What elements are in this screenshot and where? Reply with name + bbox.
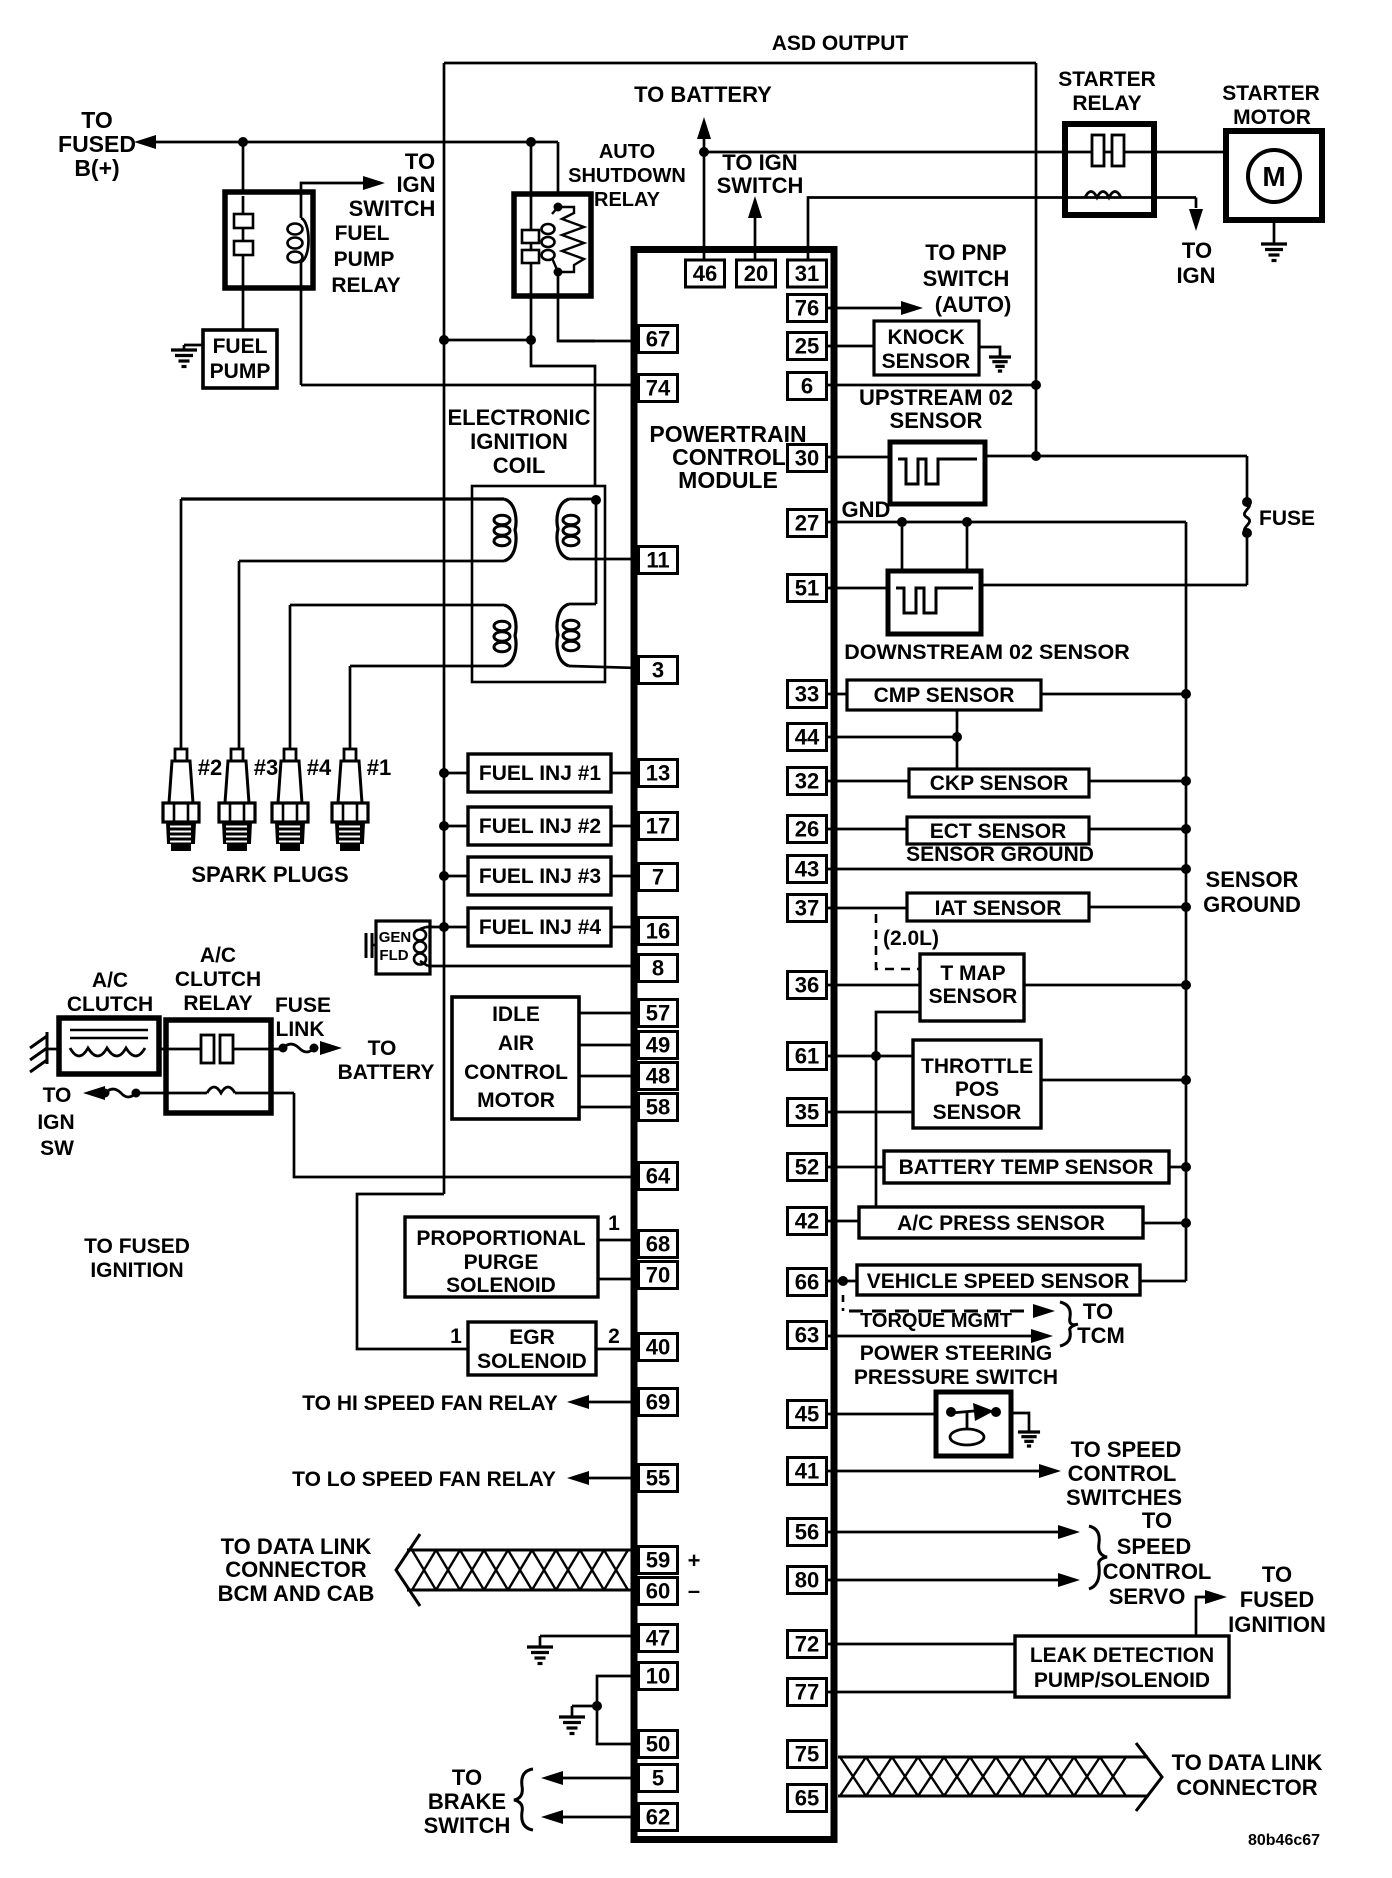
svg-text:SERVO: SERVO — [1109, 1584, 1186, 1609]
svg-text:31: 31 — [795, 261, 819, 286]
svg-text:TO DATA LINK: TO DATA LINK — [1172, 1750, 1323, 1775]
svg-text:SENSOR: SENSOR — [933, 1101, 1022, 1124]
svg-text:FUEL INJ #3: FUEL INJ #3 — [479, 865, 601, 888]
svg-text:FUSED: FUSED — [58, 131, 136, 157]
svg-text:SWITCH: SWITCH — [424, 1813, 511, 1838]
svg-text:30: 30 — [795, 446, 819, 471]
svg-text:MOTOR: MOTOR — [477, 1089, 555, 1112]
svg-text:TO: TO — [368, 1037, 397, 1060]
svg-text:IDLE: IDLE — [492, 1003, 540, 1026]
svg-text:17: 17 — [646, 814, 670, 839]
svg-text:46: 46 — [693, 261, 717, 286]
svg-text:48: 48 — [646, 1064, 670, 1089]
svg-text:RELAY: RELAY — [594, 189, 661, 211]
svg-text:PURGE: PURGE — [464, 1251, 539, 1274]
svg-text:RELAY: RELAY — [183, 992, 252, 1015]
svg-text:A/C: A/C — [200, 944, 236, 967]
svg-text:T MAP: T MAP — [940, 962, 1005, 985]
svg-text:POS: POS — [955, 1078, 999, 1101]
svg-text:43: 43 — [795, 857, 819, 882]
svg-text:COIL: COIL — [493, 453, 546, 478]
svg-text:TO DATA LINK: TO DATA LINK — [221, 1534, 372, 1559]
svg-text:EGR: EGR — [509, 1326, 555, 1349]
svg-text:68: 68 — [646, 1232, 670, 1257]
svg-text:6: 6 — [801, 374, 813, 399]
svg-text:STARTER: STARTER — [1058, 68, 1156, 91]
svg-text:58: 58 — [646, 1095, 670, 1120]
svg-text:3: 3 — [652, 658, 664, 683]
svg-text:45: 45 — [795, 1402, 819, 1427]
svg-text:CONNECTOR: CONNECTOR — [1176, 1775, 1317, 1800]
svg-text:CONTROL: CONTROL — [1103, 1559, 1212, 1584]
svg-text:75: 75 — [795, 1742, 819, 1767]
svg-text:2: 2 — [608, 1325, 620, 1348]
svg-text:FUEL: FUEL — [213, 335, 268, 358]
svg-text:LEAK DETECTION: LEAK DETECTION — [1030, 1644, 1214, 1667]
svg-text:#3: #3 — [254, 755, 278, 780]
svg-text:B(+): B(+) — [74, 155, 119, 181]
svg-text:25: 25 — [795, 334, 819, 359]
svg-text:SPEED: SPEED — [1117, 1534, 1192, 1559]
svg-text:16: 16 — [646, 919, 670, 944]
svg-text:CLUTCH: CLUTCH — [67, 993, 153, 1016]
svg-text:TO SPEED: TO SPEED — [1071, 1437, 1182, 1462]
svg-text:RELAY: RELAY — [331, 274, 400, 297]
svg-text:TO: TO — [1142, 1508, 1172, 1533]
svg-text:74: 74 — [646, 376, 671, 401]
svg-text:(AUTO): (AUTO) — [935, 292, 1012, 317]
svg-text:CLUTCH: CLUTCH — [175, 968, 261, 991]
svg-text:BCM AND CAB: BCM AND CAB — [218, 1581, 375, 1606]
svg-text:IGN: IGN — [37, 1111, 74, 1134]
svg-text:80b46c67: 80b46c67 — [1248, 1832, 1320, 1849]
svg-text:#4: #4 — [307, 755, 332, 780]
svg-text:SWITCH: SWITCH — [349, 196, 436, 221]
svg-text:CMP SENSOR: CMP SENSOR — [874, 684, 1015, 707]
svg-text:CONNECTOR: CONNECTOR — [225, 1557, 366, 1582]
svg-text:1: 1 — [450, 1325, 462, 1348]
svg-text:SHUTDOWN: SHUTDOWN — [568, 165, 686, 187]
svg-text:TO FUSED: TO FUSED — [84, 1235, 190, 1258]
svg-text:TO PNP: TO PNP — [925, 240, 1007, 265]
svg-text:63: 63 — [795, 1323, 819, 1348]
svg-text:CKP SENSOR: CKP SENSOR — [930, 772, 1068, 795]
svg-text:IAT SENSOR: IAT SENSOR — [935, 897, 1062, 920]
svg-text:SWITCH: SWITCH — [717, 173, 804, 198]
svg-text:SWITCH: SWITCH — [923, 266, 1010, 291]
svg-text:SPARK PLUGS: SPARK PLUGS — [191, 862, 348, 887]
svg-text:41: 41 — [795, 1459, 819, 1484]
svg-text:55: 55 — [646, 1466, 670, 1491]
svg-text:36: 36 — [795, 973, 819, 998]
svg-text:35: 35 — [795, 1100, 819, 1125]
svg-text:KNOCK: KNOCK — [888, 326, 965, 349]
svg-text:FUSED: FUSED — [1240, 1587, 1315, 1612]
svg-text:VEHICLE SPEED SENSOR: VEHICLE SPEED SENSOR — [867, 1270, 1130, 1293]
svg-text:TO: TO — [1182, 238, 1212, 263]
svg-text:PRESSURE SWITCH: PRESSURE SWITCH — [854, 1366, 1058, 1389]
svg-text:TO: TO — [452, 1765, 482, 1790]
svg-text:GEN: GEN — [379, 929, 412, 946]
svg-text:SENSOR GROUND: SENSOR GROUND — [906, 843, 1094, 866]
svg-text:27: 27 — [795, 511, 819, 536]
svg-text:IGNITION: IGNITION — [90, 1259, 183, 1282]
svg-text:FUSE: FUSE — [1259, 507, 1315, 530]
svg-text:BATTERY: BATTERY — [338, 1061, 435, 1084]
svg-text:FUEL INJ #4: FUEL INJ #4 — [479, 916, 601, 939]
svg-text:DOWNSTREAM 02 SENSOR: DOWNSTREAM 02 SENSOR — [844, 640, 1130, 664]
svg-text:PUMP: PUMP — [334, 248, 395, 271]
svg-text:UPSTREAM 02: UPSTREAM 02 — [859, 385, 1013, 410]
svg-text:1: 1 — [608, 1212, 620, 1235]
svg-text:TORQUE MGMT: TORQUE MGMT — [860, 1310, 1012, 1332]
svg-text:FUEL INJ #2: FUEL INJ #2 — [479, 815, 601, 838]
svg-text:A/C PRESS SENSOR: A/C PRESS SENSOR — [897, 1212, 1105, 1235]
svg-text:THROTTLE: THROTTLE — [921, 1055, 1033, 1078]
svg-text:GND: GND — [842, 497, 891, 522]
svg-text:80: 80 — [795, 1568, 819, 1593]
svg-text:–: – — [688, 1578, 700, 1603]
svg-text:+: + — [688, 1548, 701, 1573]
svg-text:51: 51 — [795, 576, 819, 601]
svg-text:5: 5 — [652, 1766, 664, 1791]
svg-text:TO LO SPEED FAN RELAY: TO LO SPEED FAN RELAY — [292, 1468, 556, 1491]
svg-text:SENSOR: SENSOR — [929, 985, 1018, 1008]
svg-text:10: 10 — [646, 1664, 670, 1689]
svg-text:AUTO: AUTO — [599, 141, 655, 163]
svg-text:TO HI SPEED FAN RELAY: TO HI SPEED FAN RELAY — [302, 1392, 558, 1415]
svg-text:61: 61 — [795, 1044, 819, 1069]
svg-text:66: 66 — [795, 1270, 819, 1295]
svg-text:#2: #2 — [198, 755, 222, 780]
svg-text:20: 20 — [744, 261, 768, 286]
svg-text:(2.0L): (2.0L) — [883, 927, 939, 950]
svg-text:BRAKE: BRAKE — [428, 1789, 506, 1814]
svg-text:FLD: FLD — [379, 947, 408, 964]
svg-text:#1: #1 — [367, 755, 391, 780]
svg-text:STARTER: STARTER — [1222, 82, 1320, 105]
svg-text:50: 50 — [646, 1732, 670, 1757]
svg-text:60: 60 — [646, 1579, 670, 1604]
svg-text:TO: TO — [1083, 1299, 1113, 1324]
svg-text:A/C: A/C — [92, 969, 128, 992]
svg-text:70: 70 — [646, 1263, 670, 1288]
svg-text:11: 11 — [646, 548, 669, 573]
svg-text:SOLENOID: SOLENOID — [446, 1274, 556, 1297]
svg-text:26: 26 — [795, 817, 819, 842]
svg-text:MOTOR: MOTOR — [1233, 106, 1311, 129]
svg-text:77: 77 — [795, 1680, 819, 1705]
svg-text:CONTROL: CONTROL — [464, 1061, 568, 1084]
svg-text:TO BATTERY: TO BATTERY — [634, 82, 772, 107]
svg-text:8: 8 — [652, 956, 664, 981]
svg-text:IGNITION: IGNITION — [1228, 1612, 1326, 1637]
svg-text:FUSE: FUSE — [275, 994, 331, 1017]
svg-text:SENSOR: SENSOR — [882, 350, 971, 373]
svg-text:TO: TO — [43, 1084, 72, 1107]
svg-text:49: 49 — [646, 1033, 670, 1058]
svg-text:76: 76 — [795, 296, 819, 321]
svg-text:RELAY: RELAY — [1072, 92, 1141, 115]
svg-text:TO: TO — [1262, 1562, 1292, 1587]
svg-text:BATTERY TEMP SENSOR: BATTERY TEMP SENSOR — [899, 1156, 1154, 1179]
svg-text:52: 52 — [795, 1155, 819, 1180]
svg-text:PUMP: PUMP — [210, 360, 271, 383]
svg-text:ASD OUTPUT: ASD OUTPUT — [772, 32, 909, 55]
svg-text:62: 62 — [646, 1805, 670, 1830]
svg-text:65: 65 — [795, 1786, 819, 1811]
svg-text:TO IGN: TO IGN — [722, 150, 797, 175]
svg-text:LINK: LINK — [276, 1018, 325, 1041]
svg-text:TCM: TCM — [1077, 1323, 1125, 1348]
svg-text:69: 69 — [646, 1390, 670, 1415]
svg-text:SW: SW — [40, 1137, 74, 1160]
svg-text:IGN: IGN — [396, 172, 435, 197]
svg-text:PROPORTIONAL: PROPORTIONAL — [416, 1227, 585, 1250]
svg-text:64: 64 — [646, 1164, 671, 1189]
svg-text:AIR: AIR — [498, 1032, 534, 1055]
svg-text:IGN: IGN — [1176, 263, 1215, 288]
svg-text:IGNITION: IGNITION — [470, 429, 568, 454]
svg-text:47: 47 — [646, 1626, 670, 1651]
svg-text:CONTROL: CONTROL — [1068, 1461, 1177, 1486]
svg-text:42: 42 — [795, 1209, 819, 1234]
svg-text:ECT SENSOR: ECT SENSOR — [930, 820, 1067, 843]
svg-text:72: 72 — [795, 1632, 819, 1657]
svg-text:SENSOR: SENSOR — [1206, 867, 1299, 892]
svg-text:TO: TO — [405, 149, 435, 174]
svg-text:56: 56 — [795, 1520, 819, 1545]
svg-text:33: 33 — [795, 682, 819, 707]
svg-text:FUEL INJ #1: FUEL INJ #1 — [479, 762, 601, 785]
svg-text:M: M — [1262, 161, 1285, 192]
svg-text:59: 59 — [646, 1548, 670, 1573]
svg-text:SWITCHES: SWITCHES — [1066, 1485, 1182, 1510]
svg-text:37: 37 — [795, 896, 819, 921]
svg-text:ELECTRONIC: ELECTRONIC — [448, 405, 591, 430]
svg-text:32: 32 — [795, 769, 819, 794]
svg-text:POWER STEERING: POWER STEERING — [860, 1342, 1053, 1365]
svg-text:57: 57 — [646, 1001, 670, 1026]
svg-text:67: 67 — [646, 327, 670, 352]
svg-text:MODULE: MODULE — [678, 467, 778, 493]
svg-text:PUMP/SOLENOID: PUMP/SOLENOID — [1034, 1669, 1210, 1692]
svg-text:SENSOR: SENSOR — [890, 408, 983, 433]
svg-text:44: 44 — [795, 725, 820, 750]
svg-text:FUEL: FUEL — [335, 222, 390, 245]
svg-text:SOLENOID: SOLENOID — [477, 1350, 587, 1373]
svg-text:7: 7 — [652, 865, 664, 890]
svg-text:13: 13 — [646, 761, 670, 786]
svg-text:40: 40 — [646, 1335, 670, 1360]
svg-text:TO: TO — [81, 107, 113, 133]
svg-text:GROUND: GROUND — [1203, 892, 1301, 917]
